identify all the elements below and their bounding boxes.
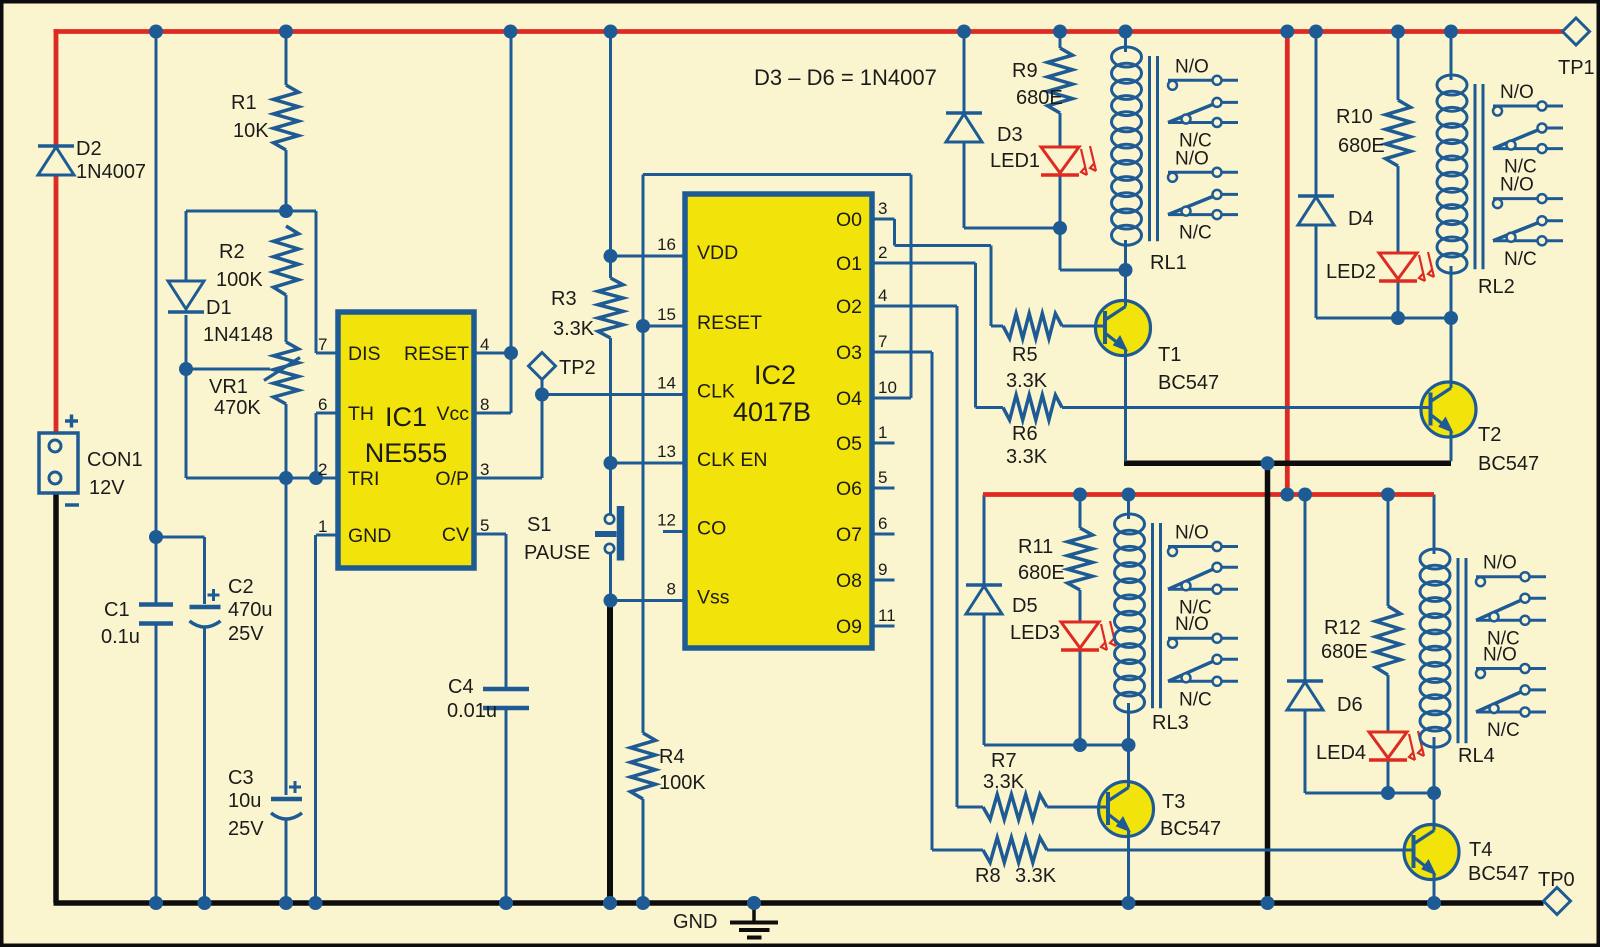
svg-text:TH: TH [348, 403, 374, 425]
svg-text:PAUSE: PAUSE [524, 542, 590, 564]
svg-text:D3: D3 [997, 124, 1023, 146]
svg-text:1: 1 [318, 517, 327, 536]
svg-text:RL1: RL1 [1150, 252, 1187, 274]
svg-text:14: 14 [657, 374, 676, 393]
svg-text:D1: D1 [206, 297, 232, 319]
svg-text:6: 6 [318, 395, 327, 414]
svg-text:T2: T2 [1478, 424, 1501, 446]
svg-text:N/O: N/O [1483, 553, 1517, 574]
svg-text:Vcc: Vcc [436, 403, 469, 425]
svg-text:680E: 680E [1018, 562, 1065, 584]
svg-text:3.3K: 3.3K [983, 771, 1025, 793]
svg-text:7: 7 [878, 332, 887, 351]
svg-text:R12: R12 [1324, 617, 1361, 639]
svg-text:1N4148: 1N4148 [203, 324, 273, 346]
svg-text:3: 3 [878, 199, 887, 218]
svg-text:12: 12 [657, 511, 676, 530]
svg-text:2: 2 [318, 460, 327, 479]
svg-text:25V: 25V [228, 818, 264, 840]
svg-text:N/C: N/C [1179, 689, 1212, 710]
svg-text:CON1: CON1 [87, 449, 143, 471]
svg-text:R4: R4 [659, 746, 685, 768]
svg-text:C2: C2 [228, 576, 254, 598]
svg-text:8: 8 [480, 395, 489, 414]
svg-text:11: 11 [878, 606, 896, 625]
svg-text:100K: 100K [216, 269, 263, 291]
svg-text:5: 5 [480, 516, 489, 535]
svg-text:N/O: N/O [1500, 82, 1534, 103]
svg-text:D3 – D6 = 1N4007: D3 – D6 = 1N4007 [754, 65, 937, 90]
svg-text:3: 3 [480, 460, 489, 479]
svg-text:3.3K: 3.3K [1006, 370, 1048, 392]
svg-text:10u: 10u [228, 790, 261, 812]
svg-text:BC547: BC547 [1468, 863, 1529, 885]
svg-text:N/O: N/O [1175, 523, 1209, 544]
svg-text:0.01u: 0.01u [447, 700, 497, 722]
svg-text:4: 4 [480, 335, 489, 354]
svg-text:R2: R2 [219, 241, 245, 263]
svg-text:10K: 10K [233, 120, 269, 142]
svg-text:R11: R11 [1018, 536, 1053, 558]
svg-text:O1: O1 [836, 253, 862, 275]
svg-text:16: 16 [657, 235, 676, 254]
svg-text:GND: GND [348, 525, 391, 547]
svg-text:0.1u: 0.1u [101, 626, 140, 648]
svg-text:TP0: TP0 [1538, 869, 1575, 891]
svg-text:TRI: TRI [348, 468, 379, 490]
svg-text:O6: O6 [836, 478, 862, 500]
svg-text:LED3: LED3 [1010, 622, 1060, 644]
svg-text:N/O: N/O [1175, 148, 1209, 169]
svg-text:CLK: CLK [697, 381, 735, 403]
svg-text:IC1: IC1 [385, 402, 427, 432]
svg-text:N/C: N/C [1504, 249, 1537, 270]
svg-text:15: 15 [657, 305, 676, 324]
svg-text:N/O: N/O [1175, 614, 1209, 635]
svg-text:C3: C3 [228, 767, 254, 789]
svg-text:12V: 12V [89, 477, 125, 499]
svg-text:BC547: BC547 [1158, 372, 1219, 394]
svg-text:6: 6 [878, 514, 887, 533]
svg-text:LED4: LED4 [1316, 742, 1366, 764]
svg-text:Vss: Vss [697, 587, 730, 609]
svg-text:3.3K: 3.3K [1015, 865, 1057, 887]
svg-text:R6: R6 [1012, 423, 1038, 445]
svg-text:LED2: LED2 [1326, 261, 1376, 283]
svg-text:TP2: TP2 [559, 357, 596, 379]
svg-text:10: 10 [878, 378, 897, 397]
svg-text:7: 7 [318, 335, 327, 354]
svg-text:680E: 680E [1321, 641, 1368, 663]
svg-text:O7: O7 [836, 524, 862, 546]
svg-text:R3: R3 [551, 288, 577, 310]
svg-text:N/C: N/C [1179, 223, 1212, 244]
svg-text:D4: D4 [1348, 208, 1374, 230]
svg-text:R9: R9 [1012, 60, 1038, 82]
svg-text:13: 13 [657, 442, 676, 461]
svg-text:RESET: RESET [697, 312, 762, 334]
svg-text:4: 4 [878, 286, 887, 305]
svg-text:O5: O5 [836, 433, 862, 455]
svg-text:GND: GND [673, 911, 717, 933]
svg-text:RL2: RL2 [1478, 276, 1515, 298]
svg-text:C1: C1 [104, 599, 130, 621]
svg-text:R7: R7 [991, 750, 1017, 772]
svg-text:C4: C4 [448, 676, 474, 698]
svg-text:R10: R10 [1336, 106, 1373, 128]
svg-text:O/P: O/P [435, 468, 469, 490]
svg-text:8: 8 [667, 580, 676, 599]
svg-text:3.3K: 3.3K [1006, 446, 1048, 468]
svg-text:O0: O0 [836, 209, 862, 231]
svg-text:CV: CV [442, 524, 469, 546]
svg-text:T3: T3 [1162, 791, 1185, 813]
svg-text:T4: T4 [1469, 839, 1492, 861]
svg-text:D6: D6 [1337, 694, 1363, 716]
svg-text:TP1: TP1 [1558, 57, 1595, 79]
svg-text:4017B: 4017B [733, 397, 811, 427]
svg-text:100K: 100K [659, 772, 706, 794]
svg-text:470K: 470K [214, 397, 261, 419]
svg-text:9: 9 [878, 560, 887, 579]
svg-text:R5: R5 [1012, 344, 1038, 366]
svg-text:O2: O2 [836, 296, 862, 318]
svg-text:680E: 680E [1016, 87, 1063, 109]
svg-text:O8: O8 [836, 570, 862, 592]
svg-text:O3: O3 [836, 342, 862, 364]
svg-text:5: 5 [878, 468, 887, 487]
svg-text:R8: R8 [975, 865, 1001, 887]
svg-text:N/C: N/C [1487, 720, 1520, 741]
svg-text:N/O: N/O [1500, 175, 1534, 196]
svg-text:CLK EN: CLK EN [697, 449, 767, 471]
svg-text:470u: 470u [228, 599, 273, 621]
svg-text:VR1: VR1 [209, 376, 248, 398]
svg-text:25V: 25V [228, 623, 264, 645]
svg-text:RESET: RESET [404, 343, 469, 365]
svg-text:2: 2 [878, 243, 887, 262]
svg-text:RL4: RL4 [1458, 745, 1495, 767]
svg-text:D2: D2 [76, 138, 102, 160]
svg-text:RL3: RL3 [1152, 712, 1189, 734]
svg-text:CO: CO [697, 518, 726, 540]
svg-text:N/O: N/O [1175, 56, 1209, 77]
svg-text:3.3K: 3.3K [553, 318, 595, 340]
svg-text:VDD: VDD [697, 242, 738, 264]
svg-text:O9: O9 [836, 616, 862, 638]
svg-text:N/O: N/O [1483, 645, 1517, 666]
svg-text:T1: T1 [1158, 344, 1181, 366]
svg-text:680E: 680E [1338, 135, 1385, 157]
svg-text:R1: R1 [231, 92, 257, 114]
svg-text:O4: O4 [836, 388, 862, 410]
svg-text:D5: D5 [1012, 595, 1038, 617]
svg-text:BC547: BC547 [1478, 453, 1539, 475]
svg-text:IC2: IC2 [754, 360, 796, 390]
svg-text:S1: S1 [527, 514, 551, 536]
svg-text:1: 1 [878, 423, 887, 442]
svg-text:LED1: LED1 [990, 150, 1040, 172]
svg-text:DIS: DIS [348, 343, 381, 365]
svg-text:BC547: BC547 [1160, 818, 1221, 840]
svg-text:NE555: NE555 [365, 438, 448, 468]
svg-text:1N4007: 1N4007 [76, 161, 146, 183]
